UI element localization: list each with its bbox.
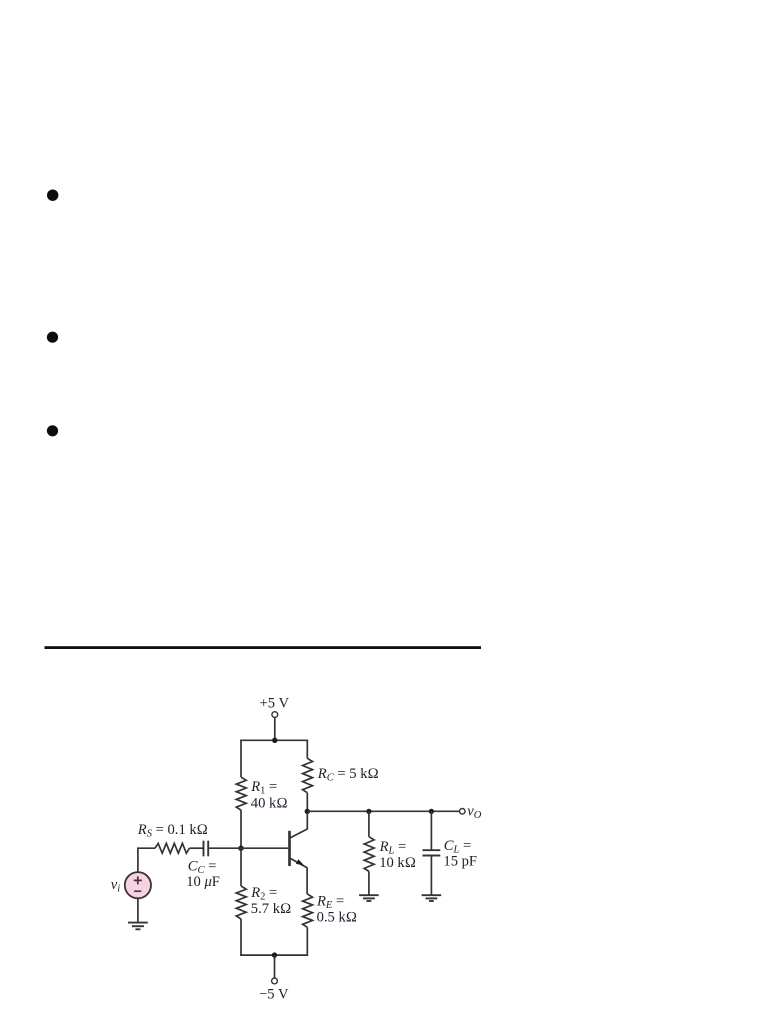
ground under CL <box>422 895 442 901</box>
svg-text:40 kΩ: 40 kΩ <box>251 795 288 811</box>
source vi plus sign <box>134 876 142 884</box>
svg-text:RL =: RL = <box>379 839 407 857</box>
wire: base wire from CC to base <box>209 847 290 849</box>
bullet 1 <box>47 190 58 201</box>
resistor R2 <box>236 886 246 919</box>
bullet 3 <box>47 425 58 436</box>
transistor Q1 emitter arrowhead <box>296 859 304 865</box>
wire: top rail <box>240 739 308 741</box>
transistor Q1 emitter lead <box>290 858 307 894</box>
wire: CL branch from output line <box>430 811 432 850</box>
svg-text:+5 V: +5 V <box>260 696 290 712</box>
svg-text:RC = 5 kΩ: RC = 5 kΩ <box>317 766 379 784</box>
node: base/divider junction <box>238 846 243 851</box>
capacitor CL plates <box>423 850 441 855</box>
ground under RL <box>359 895 379 901</box>
resistor RS <box>155 843 189 853</box>
wire: RS to CC <box>189 847 203 849</box>
wire: source top to RS <box>138 848 155 872</box>
+5 V supply terminal <box>272 712 278 718</box>
svg-text:10 μF: 10 μF <box>186 874 220 890</box>
wire: bottom rail to -5V terminal <box>274 955 276 978</box>
source vi minus sign <box>134 890 141 892</box>
wire: RC bottom to collector node <box>306 793 308 812</box>
source vi circle <box>125 872 151 898</box>
transistor Q1 collector lead <box>290 813 307 838</box>
wire: CL bottom plate to ground <box>430 856 432 895</box>
wire: output line to vo terminal <box>307 810 459 812</box>
svg-text:−5 V: −5 V <box>259 987 289 1003</box>
wire: bottom rail <box>240 954 308 956</box>
svg-text:5.7 kΩ: 5.7 kΩ <box>251 901 291 917</box>
resistor RE <box>303 894 313 927</box>
transistor Q1 base bar <box>288 831 291 866</box>
wire: R1 bottom to base node <box>240 810 242 848</box>
wire: source bottom to ground <box>137 898 139 922</box>
horizontal divider rule <box>45 646 482 649</box>
resistor RC <box>303 758 313 792</box>
node: top rail junction <box>272 738 277 743</box>
node: RL tap junction <box>366 809 371 814</box>
resistor R1 <box>236 777 246 810</box>
svg-text:RE =: RE = <box>316 894 344 912</box>
wire: left rail, top rail to R1 <box>240 740 242 778</box>
svg-text:vi: vi <box>111 877 120 895</box>
wire: base node to R2 <box>240 848 242 886</box>
resistor RL <box>364 837 374 872</box>
svg-text:10 kΩ: 10 kΩ <box>379 855 416 871</box>
wire: R2 bottom to bottom rail <box>240 919 242 956</box>
capacitor CC plates <box>204 841 209 857</box>
-5 V supply terminal <box>272 978 278 984</box>
wire: RL branch from output line <box>368 811 370 836</box>
wire: RL bottom to ground <box>368 871 370 894</box>
svg-text:0.5 kΩ: 0.5 kΩ <box>317 910 357 926</box>
svg-text:15 pF: 15 pF <box>443 853 477 869</box>
wire: RE bottom to bottom rail <box>306 927 308 956</box>
svg-text:vO: vO <box>467 803 481 821</box>
ground under vi <box>128 923 148 930</box>
node: bottom rail junction <box>272 952 277 957</box>
bullet 2 <box>47 332 58 343</box>
output terminal vo <box>460 809 466 815</box>
wire: right rail, top rail to RC <box>306 740 308 759</box>
node: CL tap junction <box>429 809 434 814</box>
wire: +5V terminal to top rail <box>274 718 276 740</box>
svg-text:RS = 0.1 kΩ: RS = 0.1 kΩ <box>137 822 208 840</box>
svg-text:R1 =: R1 = <box>250 779 277 797</box>
node: collector/output junction <box>305 809 310 814</box>
